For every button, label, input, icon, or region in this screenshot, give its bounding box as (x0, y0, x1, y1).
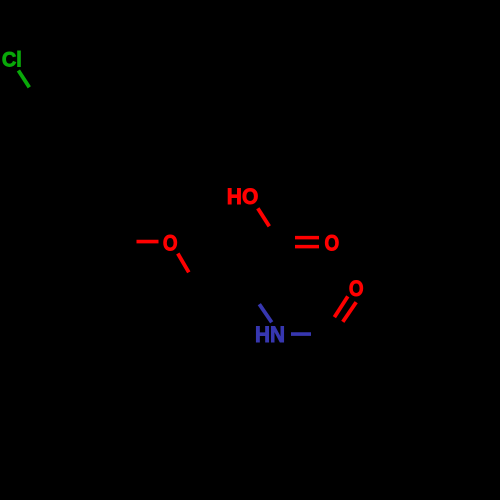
double bond C=O carboxyl, bottom line red half (295, 245, 319, 249)
bond HO-C(carboxyl) red half, diagonal (258, 208, 270, 226)
svg-text:O: O (325, 231, 340, 256)
svg-text:HO: HO (227, 185, 258, 210)
double bond C=O amide, left line red half (334, 296, 347, 317)
bond Cl-ring green half (18, 71, 29, 88)
svg-text:O: O (349, 277, 364, 302)
svg-text:O: O (163, 231, 178, 256)
bond CH2-O(ether) red half, horizontal (137, 240, 159, 244)
bond N-C(amide) blue half, horizontal (291, 332, 311, 336)
double bond C=O amide, right line red half (343, 302, 356, 322)
svg-text:HN: HN (255, 322, 285, 347)
double bond C=O carboxyl, top line red half (295, 236, 319, 240)
bond O(ether)-CH2 red half, diagonal (178, 254, 189, 273)
svg-text:Cl: Cl (2, 48, 22, 72)
bond CH-N blue half, diagonal (259, 304, 271, 322)
